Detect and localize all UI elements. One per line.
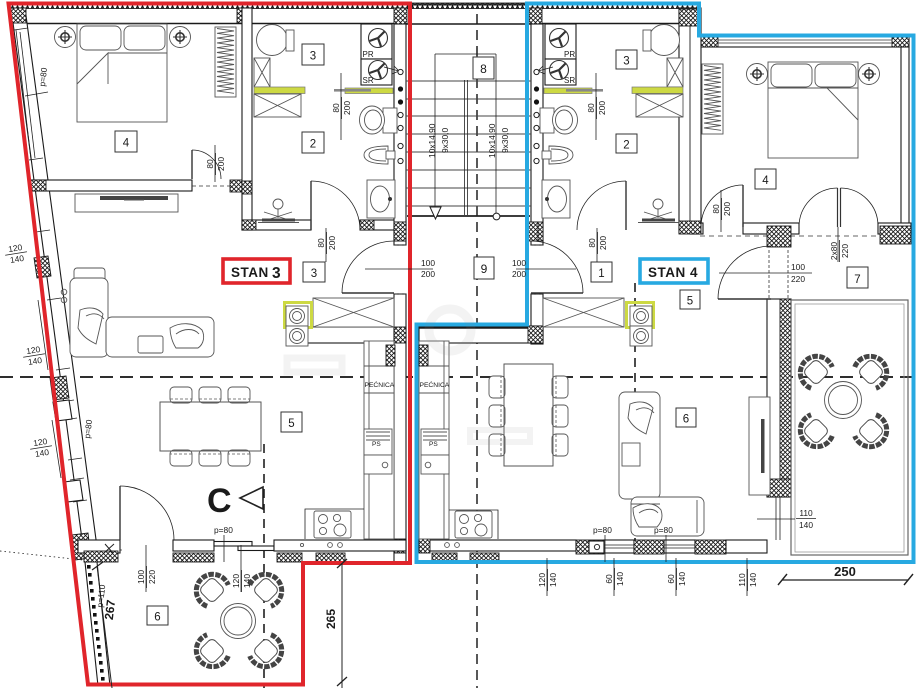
door living-terrace right apt (100/220) — [718, 298, 771, 300]
dim 100/200 left entry — [365, 268, 433, 270]
pier + vent box — [576, 540, 604, 554]
svg-text:80: 80 — [586, 103, 596, 113]
room 6 right living — [676, 408, 696, 427]
landing label 9 box — [474, 257, 494, 279]
terrace partition wall right apt — [767, 299, 791, 497]
room 6 left terrace — [147, 606, 168, 625]
svg-text:80: 80 — [711, 204, 721, 214]
X-wardrobe left apt — [313, 298, 394, 327]
stair west wall lower — [394, 294, 406, 563]
svg-text:220: 220 — [147, 570, 157, 584]
svg-text:200: 200 — [598, 236, 608, 250]
sofa right apt — [619, 392, 660, 499]
pier slanted wall 3 — [72, 533, 91, 560]
pier stair west at entry wall — [394, 327, 406, 343]
svg-text:STAN: STAN — [231, 265, 269, 280]
dim 265 vertical — [341, 564, 343, 688]
green towel radiator — [345, 88, 393, 94]
80/200 right bedroom door — [720, 190, 722, 232]
door right bathroom2 — [625, 181, 627, 230]
bed left — [77, 24, 167, 122]
washbasin — [542, 180, 570, 218]
entry door jambs left (dashed) — [394, 244, 406, 246]
svg-text:60: 60 — [666, 574, 676, 584]
room 7 right loggia — [847, 267, 868, 288]
svg-text:6: 6 — [683, 414, 689, 426]
dim 250 bottom right — [782, 579, 908, 581]
dim 120/140 left edge mid — [22, 343, 47, 367]
p=80 rotated mid left — [82, 419, 94, 439]
pier top bath/bedroom wall right — [680, 8, 696, 25]
svg-text:PEĆNICA: PEĆNICA — [365, 380, 395, 389]
right bedroom east wall — [901, 47, 909, 226]
SR box — [545, 59, 576, 85]
svg-text:60: 60 — [604, 574, 614, 584]
top wall inner face left — [13, 23, 406, 25]
bidet — [549, 146, 573, 164]
dim 100/200 right entry — [516, 268, 576, 270]
120/140 left terrace window — [240, 545, 242, 592]
dotted line bottom left — [0, 551, 83, 560]
svg-text:PS: PS — [429, 441, 438, 448]
washbasin — [367, 180, 395, 218]
shaft with X — [667, 58, 683, 87]
80/200 right bath — [595, 73, 597, 140]
room 4 right bedroom — [755, 169, 776, 189]
svg-text:100: 100 — [791, 262, 805, 272]
nightlamp left — [747, 64, 768, 85]
p=80 rotated top left — [37, 67, 49, 87]
kitchen counter left apt — [364, 341, 394, 539]
svg-text:3: 3 — [310, 51, 316, 63]
top wall stairwell (tooth band) — [408, 3, 528, 9]
svg-text:2: 2 — [623, 140, 629, 152]
toilet — [540, 108, 554, 133]
left bedroom south wall — [31, 180, 192, 191]
sofa left apt — [74, 268, 105, 281]
nightlamp right — [170, 27, 191, 48]
svg-text:3: 3 — [623, 56, 629, 68]
2x80/220 right double door — [837, 227, 839, 262]
pier on west wall — [242, 181, 252, 194]
pier — [634, 540, 664, 554]
svg-text:250: 250 — [834, 564, 856, 579]
nightlamp right — [859, 64, 880, 85]
cabinet with X — [636, 94, 683, 117]
bottom counter right — [449, 510, 498, 539]
window right apt 1 — [604, 540, 634, 553]
STAN 4 blue outline — [417, 4, 914, 563]
stair texts — [427, 123, 510, 158]
room 5 left living — [281, 412, 302, 432]
entry door right apt — [531, 292, 583, 294]
wardrobe rail left bedroom — [215, 27, 236, 97]
80/200 right bath2 door — [596, 228, 598, 262]
svg-text:STAN 4: STAN 4 — [648, 265, 698, 280]
svg-text:4: 4 — [123, 138, 130, 150]
dim 110/140 right — [757, 518, 795, 520]
80/200 left bedroom door — [214, 145, 216, 182]
coat stand left hall — [273, 199, 283, 209]
pier L at terrace door corner — [767, 226, 791, 247]
pier bedroom south right end — [230, 180, 252, 192]
bottom wall piece between door and slider — [173, 540, 214, 551]
entry door left apt — [342, 292, 394, 294]
svg-text:100: 100 — [421, 258, 435, 268]
room 1 right hall — [591, 262, 612, 282]
svg-text:7: 7 — [854, 274, 860, 286]
toilet — [383, 108, 397, 133]
wardrobe rail right bedroom — [702, 64, 723, 134]
svg-text:9x30,0: 9x30,0 — [440, 128, 450, 153]
stair landing edge — [407, 215, 530, 217]
side dots — [61, 289, 67, 295]
STAN 3 label — [223, 259, 290, 283]
pier top-left corner (over slanted wall) — [11, 8, 26, 23]
dining table left apt — [160, 402, 261, 451]
dim 120/140 left edge top — [4, 241, 29, 265]
pier top stair west — [394, 8, 407, 24]
pier top stair east — [529, 8, 542, 24]
bidet — [364, 146, 388, 164]
right terrace floor frame — [791, 300, 908, 555]
pier stair west at bottom — [394, 539, 406, 553]
terrace table right — [825, 382, 862, 419]
stair label 8 box — [473, 57, 494, 79]
window sill box slanted wall a — [53, 400, 72, 421]
TV cabinet left living — [75, 194, 178, 212]
entry door jambs right (dashed) — [531, 244, 543, 246]
svg-text:200: 200 — [342, 101, 352, 115]
cabinet under — [421, 455, 449, 474]
svg-text:110: 110 — [737, 573, 747, 587]
TV cabinet right living — [749, 397, 770, 495]
left apt entry wall — [303, 327, 394, 343]
door living-terrace left apt — [119, 486, 121, 540]
svg-text:200: 200 — [512, 269, 526, 279]
svg-text:200: 200 — [597, 101, 607, 115]
pier stair east at y222 — [531, 222, 543, 241]
window sill box slanted wall b — [64, 480, 83, 502]
pier slanted wall 1 — [34, 256, 51, 278]
svg-text:5: 5 — [687, 296, 693, 308]
svg-text:2: 2 — [310, 139, 316, 151]
pier stair bottom west — [394, 222, 406, 241]
room 4 left bedroom — [115, 131, 137, 152]
svg-text:200: 200 — [327, 236, 337, 250]
svg-text:PEĆNICA: PEĆNICA — [420, 380, 450, 389]
STAN 4 label — [640, 259, 708, 283]
door left bedroom — [191, 150, 193, 179]
room 5 right living — [680, 290, 700, 309]
svg-text:p=80: p=80 — [654, 525, 673, 535]
svg-text:8: 8 — [480, 62, 487, 76]
dishwasher PS right — [421, 429, 449, 455]
svg-text:140: 140 — [242, 574, 252, 588]
svg-text:100: 100 — [512, 258, 526, 268]
stair treads — [406, 81, 531, 206]
bed right — [768, 62, 858, 158]
svg-text:SR: SR — [564, 76, 575, 85]
cabinet under — [364, 455, 392, 474]
nightlamp left — [55, 27, 76, 48]
pier bedroom south east end — [880, 226, 911, 244]
bathroom west wall left apt — [242, 8, 252, 230]
svg-text:PR: PR — [363, 50, 374, 59]
p=110 rotated — [95, 584, 108, 608]
bottom wall left apt west piece — [78, 540, 120, 553]
PR box — [361, 24, 392, 59]
STAN 3 red outline — [9, 4, 411, 685]
svg-text:p=80: p=80 — [593, 525, 612, 535]
pier terrace wall bottom — [767, 479, 791, 497]
stair walk-line start circle — [493, 213, 500, 220]
stair west wall upper — [394, 24, 406, 245]
dim 100/220 right terrace door — [719, 272, 812, 274]
faucet dots right — [445, 543, 450, 548]
100/220 left terrace door — [145, 545, 147, 592]
svg-text:5: 5 — [288, 418, 294, 430]
cushion right end — [170, 324, 204, 348]
riser pipe dots on stair wall east — [534, 69, 539, 163]
dining table right apt — [504, 364, 553, 466]
svg-text:120: 120 — [537, 573, 547, 587]
bathroom south wall left apt (with door gap 311-360) — [242, 220, 311, 230]
ottoman — [138, 336, 163, 353]
pier stair west at y222 — [394, 222, 406, 241]
stair walk-line down arrow — [430, 207, 441, 219]
window lines bedroom top — [718, 39, 892, 41]
watermark — [287, 309, 530, 442]
svg-text:140: 140 — [615, 572, 625, 586]
window right apt 2 — [664, 540, 695, 553]
green towel radiator — [544, 88, 592, 94]
svg-text:PS: PS — [372, 441, 381, 448]
svg-text:6: 6 — [154, 612, 160, 624]
bottom wall under kitchen left apt — [274, 540, 406, 551]
svg-text:10x14,90: 10x14,90 — [427, 123, 437, 158]
glazing lines in slanted wall — [16, 30, 31, 160]
double balcony door right bedroom — [837, 188, 839, 227]
section line C left — [263, 444, 265, 688]
pier bedroom south left end — [31, 180, 46, 191]
svg-text:9x30,0: 9x30,0 — [500, 128, 510, 153]
svg-text:10x14,90: 10x14,90 — [487, 123, 497, 158]
room 2 right wc — [616, 134, 637, 153]
svg-text:140: 140 — [677, 572, 687, 586]
shaft with X — [254, 58, 270, 87]
pier bath south right of door — [360, 220, 374, 230]
room number boxes — [115, 44, 868, 625]
top wall right apartment (tooth band) — [528, 3, 700, 9]
SR box — [361, 59, 392, 85]
svg-text:80: 80 — [587, 238, 597, 248]
right bedroom top wall — [701, 36, 909, 47]
svg-text:p=80: p=80 — [214, 525, 233, 535]
kitchen counter right apt — [419, 341, 449, 539]
svg-text:220: 220 — [791, 274, 805, 284]
svg-text:110: 110 — [799, 508, 813, 518]
sliding door left apt — [214, 542, 252, 547]
svg-text:140: 140 — [548, 573, 558, 587]
PR box — [545, 24, 576, 59]
pier landing wall east — [528, 326, 543, 343]
svg-text:2x80: 2x80 — [829, 242, 839, 261]
pier top-left corner — [10, 8, 25, 23]
bottom counter left — [305, 509, 364, 539]
terrace table left — [221, 604, 256, 639]
right bathroom east / bedroom west double wall — [679, 8, 701, 233]
dashed stub left of bottom wall — [97, 549, 122, 551]
svg-text:200: 200 — [722, 202, 732, 216]
washer stack right apt (green highlight) — [627, 303, 654, 328]
svg-text:80: 80 — [331, 103, 341, 113]
80/200 left bath2 door — [325, 228, 327, 262]
terrace door (100/220) jambs dashed — [768, 250, 770, 298]
washing machine — [649, 25, 680, 56]
pier — [695, 540, 726, 554]
svg-text:9: 9 — [481, 262, 488, 276]
axis stair vertical — [476, 14, 478, 688]
door right bedroom — [742, 185, 744, 227]
dishwasher PS left — [364, 429, 392, 455]
washer stack left apt (green highlight) — [285, 303, 312, 328]
svg-text:100: 100 — [136, 570, 146, 584]
pier top of that wall — [679, 9, 701, 26]
tick marks bottom-left wall — [104, 544, 114, 553]
svg-text:265: 265 — [324, 609, 338, 629]
slanted wall transverse joints — [14, 28, 28, 30]
svg-text:4: 4 — [762, 175, 769, 187]
leader lines for p=80 bottom — [223, 535, 225, 562]
green shelf — [254, 87, 305, 94]
stair east wall lower piece — [531, 294, 543, 344]
piece to terrace wall — [726, 540, 767, 553]
green shelf — [632, 87, 683, 94]
stair top inner face — [406, 23, 531, 25]
riser pipe dots on stair wall — [398, 69, 403, 163]
svg-text:3: 3 — [311, 268, 317, 280]
terrace parapet band (slanted, with posts) — [85, 562, 110, 686]
svg-text:140: 140 — [748, 573, 758, 587]
dim 267 along slanted parapet — [97, 566, 112, 688]
room 3 left hall — [303, 262, 325, 282]
axis horizontal main — [0, 376, 920, 378]
svg-text:200: 200 — [216, 157, 226, 171]
door left bathroom2 — [310, 181, 312, 230]
bottom right rotated dims — [546, 558, 548, 596]
top wall inner face right — [531, 23, 690, 25]
tub chairs right terrace — [793, 349, 834, 390]
dim 120/140 left edge low — [29, 435, 54, 459]
svg-text:PR: PR — [564, 50, 575, 59]
pier bath south left — [242, 220, 256, 230]
room 2 left wc — [302, 132, 324, 153]
arrow into wall — [538, 66, 553, 74]
left slanted exterior wall — [11, 8, 99, 562]
svg-text:140: 140 — [799, 520, 813, 530]
pier top at bathroom wall — [237, 8, 252, 23]
stair east wall upper — [531, 24, 543, 245]
door threshold dashed bedroom left — [192, 185, 230, 187]
hob right — [455, 511, 492, 538]
washing machine — [257, 25, 288, 56]
dim dashed line right bedroom wall — [700, 235, 910, 237]
svg-text:SR: SR — [363, 76, 374, 85]
svg-text:120: 120 — [231, 574, 241, 588]
room 3 left bath — [302, 44, 324, 65]
svg-text:1: 1 — [598, 268, 604, 280]
section line right — [634, 283, 636, 540]
svg-text:80: 80 — [205, 159, 215, 169]
rotated dims: 80/200 left bath — [340, 73, 342, 140]
hob left — [314, 511, 351, 538]
right bedroom south wall pieces — [690, 223, 703, 234]
pier bedroom top right — [892, 36, 909, 47]
svg-text:200: 200 — [421, 269, 435, 279]
faucet dots left — [328, 543, 333, 548]
bottom wall right apt: kitchen piece — [419, 540, 576, 551]
arrow into wall — [384, 66, 399, 74]
svg-text:C: C — [207, 482, 232, 520]
glass door frame below — [775, 497, 777, 540]
pier slanted wall 2 — [50, 376, 69, 400]
svg-text:220: 220 — [840, 244, 850, 258]
svg-text:80: 80 — [316, 238, 326, 248]
top wall left apartment (tooth band) — [10, 3, 408, 9]
tub chairs left terrace — [189, 567, 230, 608]
room 3 right bath — [616, 50, 637, 69]
pier bedroom top left — [701, 36, 718, 47]
X-wardrobe right apt — [543, 298, 624, 327]
landing south wall (right apt north wall) — [419, 326, 543, 343]
coat stand right hall — [653, 199, 663, 209]
svg-text:3: 3 — [272, 265, 281, 282]
stair flight rails — [434, 54, 436, 215]
cabinet with X — [254, 94, 301, 117]
